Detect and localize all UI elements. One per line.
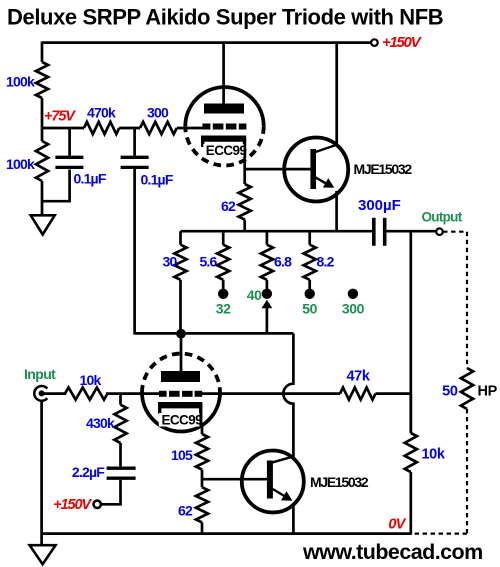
wire +75V row left	[42, 127, 84, 130]
resistor R 300	[140, 122, 177, 134]
resistor R 10k input	[65, 388, 108, 400]
transistor Q2 collector	[271, 456, 294, 463]
wire U1 cathode down	[243, 156, 246, 184]
tube U1 grid dashes	[202, 124, 246, 130]
svg-text:40: 40	[247, 287, 262, 303]
label Q2 MJE15032	[310, 474, 369, 490]
wire ground stub to cap	[42, 170, 70, 203]
transistor Q2 base bar	[267, 461, 273, 499]
label 100k upper	[6, 74, 35, 90]
label 2.2uF	[72, 464, 105, 480]
resistor R 62 upper	[239, 184, 251, 220]
svg-text:8.2: 8.2	[317, 254, 335, 270]
label 300uF	[358, 197, 401, 214]
tube U1 envelope solid top	[185, 87, 263, 126]
wire output vertical drop	[409, 231, 412, 433]
label 300 tap	[342, 301, 365, 317]
wire 300 to grid	[177, 127, 203, 130]
wire feedback horizontal	[133, 332, 293, 335]
label 62 lower	[178, 503, 193, 519]
tube U2 envelope dashed top	[142, 354, 220, 393]
label Q1 MJE15032	[354, 161, 413, 177]
label 8.2	[317, 254, 335, 270]
svg-text:470k: 470k	[87, 105, 116, 121]
resistor R 5.6	[217, 231, 229, 290]
svg-text:62: 62	[178, 503, 193, 519]
label 62 upper	[221, 198, 236, 214]
label 100k lower	[6, 156, 35, 172]
wire input ground stem	[40, 401, 43, 546]
label +150V top	[382, 34, 423, 51]
terminal +150V top	[371, 39, 378, 46]
label 5.6	[199, 254, 217, 270]
svg-text:10k: 10k	[422, 447, 446, 463]
resistor R 47k	[340, 388, 376, 400]
svg-text:32: 32	[216, 301, 231, 317]
svg-text:ECC99: ECC99	[206, 143, 247, 158]
wire 47k to right	[376, 392, 411, 395]
svg-text:0.1µF: 0.1µF	[74, 171, 107, 187]
tube U2 cathode	[158, 405, 202, 426]
capacitor C 2.2uF	[101, 443, 136, 504]
wire U2 cathode down	[201, 424, 204, 434]
node tap 40	[262, 289, 272, 299]
svg-text:2.2µF: 2.2µF	[72, 464, 105, 480]
resistor R 30	[174, 231, 186, 333]
wire dashed output right	[443, 231, 467, 233]
svg-text:50: 50	[442, 383, 458, 399]
wire feedback vertical with hop	[283, 333, 293, 458]
svg-text:100k: 100k	[6, 74, 35, 90]
capacitor C 300uF	[374, 218, 436, 246]
svg-text:6.8: 6.8	[274, 254, 292, 270]
svg-text:HP: HP	[478, 383, 498, 399]
svg-text:+150V: +150V	[382, 34, 423, 51]
svg-text:0.1µF: 0.1µF	[141, 172, 174, 188]
svg-text:300: 300	[147, 105, 169, 121]
wire 10k right down	[409, 472, 412, 535]
tube U1 envelope dashed bottom	[185, 126, 263, 165]
svg-text:Input: Input	[24, 366, 56, 382]
label 40	[247, 287, 262, 303]
transistor Q1 base bar	[310, 149, 316, 189]
label +75V	[44, 109, 76, 125]
label 10k right	[422, 447, 446, 463]
ground bottom-left	[30, 545, 56, 564]
resistor R 100k lower	[36, 141, 48, 181]
wire grid to 47k	[202, 392, 340, 395]
svg-text:ECC99: ECC99	[162, 413, 203, 428]
resistor R 430k	[114, 405, 126, 443]
wire U1 plate lead	[222, 43, 225, 104]
label 50 HP	[442, 383, 458, 399]
wire dashed bottom	[412, 532, 467, 534]
svg-text:+150V: +150V	[53, 497, 92, 513]
resistor R 100k upper	[36, 62, 48, 98]
capacitor C 0.1uF right	[121, 128, 149, 167]
svg-text:430k: 430k	[86, 415, 115, 431]
title text	[7, 4, 443, 29]
label HP	[478, 383, 498, 399]
tube U1 cathode	[201, 139, 246, 159]
wire dashed down to 50	[466, 232, 468, 368]
tube U2 grid dashes	[159, 391, 202, 397]
wire 47k junction to 10k	[409, 394, 412, 433]
label 30	[163, 254, 178, 270]
resistor R 50 HP	[461, 368, 473, 409]
svg-text:0V: 0V	[388, 517, 406, 533]
svg-text:MJE15032: MJE15032	[310, 474, 369, 490]
label Input	[24, 366, 56, 382]
wire bottom ground bus	[42, 532, 411, 535]
resistor R 470k	[84, 122, 119, 134]
tube U1 plate	[204, 104, 244, 114]
svg-text:30: 30	[163, 254, 178, 270]
wire cap right down	[133, 169, 136, 333]
resistor R 10k right	[405, 433, 417, 472]
wire 105-62 junction	[201, 470, 204, 488]
label 50 tap	[302, 301, 317, 317]
capacitor C 0.1uF left	[55, 128, 83, 167]
terminal +150V bottom	[94, 501, 101, 508]
transistor Q1 circle	[284, 138, 348, 202]
ground upper-left	[31, 215, 55, 234]
wire Q1 emitter down	[335, 191, 338, 231]
transistor Q1 collector	[314, 145, 337, 153]
wire Q2 emitter down	[292, 504, 295, 534]
svg-text:50: 50	[302, 301, 317, 317]
wire tap select riser	[262, 300, 273, 334]
label 430k	[86, 415, 115, 431]
label 32	[216, 301, 231, 317]
wire 62 to bus	[243, 220, 246, 232]
svg-text:300µF: 300µF	[358, 197, 401, 214]
label 0.1uF left	[74, 171, 107, 187]
connector input jack	[34, 386, 47, 401]
transistor Q1 emitter	[314, 177, 334, 188]
label 0V	[388, 517, 406, 533]
svg-text:105: 105	[171, 447, 193, 463]
terminal Output	[436, 228, 443, 235]
node junction plate/feedback	[176, 329, 186, 339]
svg-text:www.tubecad.com: www.tubecad.com	[302, 540, 483, 564]
transistor Q2 circle	[242, 451, 304, 513]
svg-text:300: 300	[342, 301, 365, 317]
svg-text:10k: 10k	[80, 372, 102, 388]
svg-text:100k: 100k	[6, 156, 35, 172]
svg-text:47k: 47k	[347, 369, 371, 385]
wire dashed 50 to bottom	[466, 409, 468, 534]
transistor Q2 emitter	[271, 488, 292, 501]
wire U2 plate lead	[180, 333, 183, 371]
label 47k	[347, 369, 371, 385]
node tap 32	[218, 289, 228, 299]
label 300	[147, 105, 169, 121]
wire to ground upper-left	[41, 181, 44, 215]
label 10k input	[80, 372, 102, 388]
wire 430k top lead	[119, 394, 122, 405]
svg-text:MJE15032: MJE15032	[354, 161, 413, 177]
wire top-left drop	[41, 42, 44, 63]
label U2 ECC99	[159, 413, 202, 428]
label U1 ECC99	[203, 143, 246, 158]
resistor R 105	[196, 434, 208, 470]
wire Q2 base	[202, 478, 268, 481]
tube U2 plate	[161, 371, 200, 382]
footer www.tubecad.com	[302, 540, 483, 564]
label Output	[421, 210, 462, 225]
label +150V bottom	[53, 497, 92, 513]
resistor R 62 lower	[196, 487, 208, 522]
wire output bus	[181, 230, 373, 233]
label 6.8	[274, 254, 292, 270]
label 105	[171, 447, 193, 463]
wire input to 10k	[42, 392, 66, 395]
svg-text:5.6: 5.6	[199, 254, 217, 270]
resistor R 8.2	[304, 231, 316, 290]
wire 470k-300	[119, 127, 140, 130]
node tap 300	[348, 289, 358, 299]
wire Q1 base	[245, 168, 311, 171]
label 470k	[87, 105, 116, 121]
wire 10k to grid	[106, 392, 159, 395]
svg-text:62: 62	[221, 198, 236, 214]
wire Q1 collector drop	[335, 43, 338, 145]
wire top +150V bus	[42, 41, 371, 44]
node tap 50	[305, 289, 315, 299]
label 0.1uF right	[141, 172, 174, 188]
svg-text:Output: Output	[421, 210, 462, 225]
svg-text:+75V: +75V	[44, 109, 76, 125]
wire 100k junction	[41, 98, 44, 141]
resistor R 6.8	[261, 231, 273, 290]
wire 62 to bottom bus	[201, 522, 204, 533]
tube U2 envelope solid bottom	[142, 393, 220, 432]
svg-text:Deluxe SRPP Aikido Super Triod: Deluxe SRPP Aikido Super Triode with NFB	[7, 4, 443, 29]
